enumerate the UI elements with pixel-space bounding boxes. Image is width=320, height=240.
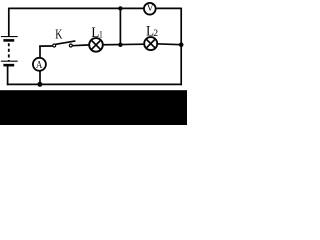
battery B1: cell 2 short thick negative plate [3, 64, 14, 67]
junction dot at right side [179, 42, 184, 47]
lamp L2: cross stroke 2 [146, 39, 155, 48]
wire: lamp L1 to lamp L2 (through branch junction) [95, 43, 145, 46]
wire: lamp L2 to right side [156, 43, 181, 46]
voltmeter V: circle [144, 3, 156, 15]
svg-text:L: L [91, 24, 99, 41]
switch K: left pivot circle [53, 44, 56, 47]
lamp L2: circle [144, 37, 157, 50]
wire: right side [180, 8, 182, 86]
junction dot top of branch [118, 6, 122, 10]
junction dot on bottom wire at ammeter branch [37, 82, 42, 87]
wire: top side [9, 7, 181, 9]
battery B1: cell 1 long positive plate [1, 36, 18, 38]
wire: left side lower (battery to bottom corner) [7, 66, 9, 85]
wire: left side upper (top corner to battery) [8, 8, 10, 37]
black band at bottom [0, 90, 187, 125]
svg-text:V: V [147, 3, 154, 13]
svg-text:K: K [55, 26, 62, 42]
wire: ammeter to bottom wire [39, 71, 41, 85]
junction dot bottom of branch [118, 43, 122, 47]
lamp L1: circle [89, 38, 103, 52]
lamp L2: cross stroke 1 [146, 39, 155, 48]
svg-text:A: A [36, 59, 43, 71]
ammeter A: circle [33, 58, 46, 71]
switch K: right contact circle [69, 44, 72, 47]
battery B1: cell 1 short thick negative plate [3, 39, 14, 42]
wire: ammeter branch, middle wire corner down to meter [39, 46, 41, 59]
wire: middle wire corner to switch pivot [39, 45, 52, 47]
wire: switch to lamp L1 [72, 44, 89, 47]
battery B1: cell 2 long positive plate [1, 60, 18, 62]
svg-text:2: 2 [153, 29, 158, 39]
switch K: lever arm [56, 41, 76, 44]
battery B1: dashed link between cells [8, 43, 10, 61]
svg-text:1: 1 [99, 29, 103, 40]
lamp L1: cross stroke 1 [91, 40, 101, 50]
lamp L1: cross stroke 2 [91, 40, 101, 50]
wire: bottom side [7, 83, 182, 85]
wire: voltmeter branch vertical [119, 8, 121, 44]
